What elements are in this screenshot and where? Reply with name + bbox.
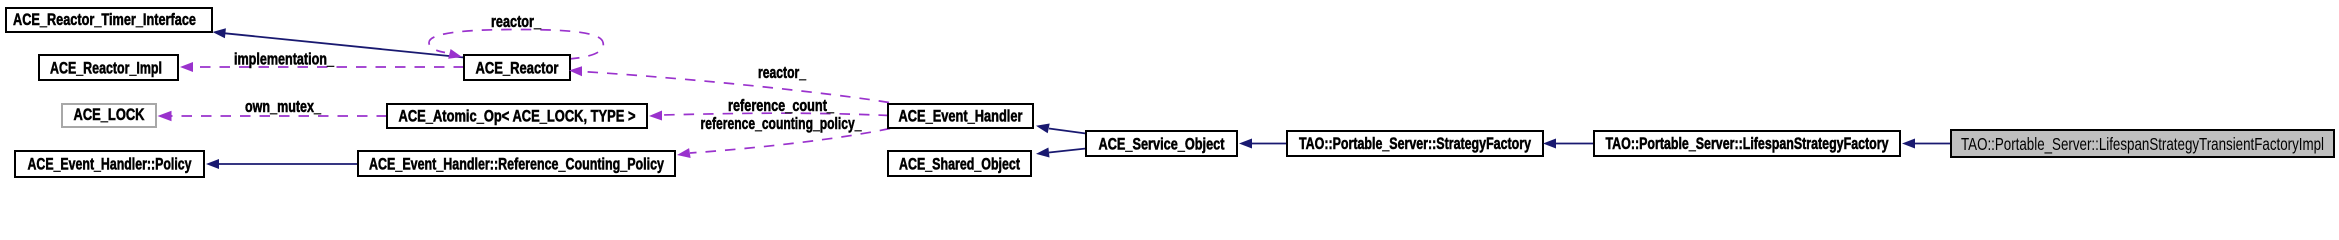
class box ACE_Reactor	[464, 55, 570, 80]
svg-text:ACE_Event_Handler: ACE_Event_Handler	[899, 108, 1023, 126]
focal class box TAO::Portable_Server::LifespanStrategyTransientFactoryImpl (gray fill)	[1951, 130, 2334, 157]
class box TAO::Portable_Server::LifespanStrategyFactory	[1594, 131, 1900, 156]
usage edge own_mutex_ from ACE_Atomic_Op to ACE_LOCK	[158, 98, 388, 121]
inheritance arrow ACE_Service_Object to ACE_Event_Handler	[1036, 124, 1086, 134]
svg-text:TAO::Portable_Server::Lifespan: TAO::Portable_Server::LifespanStrategyFa…	[1606, 135, 1890, 153]
class box TAO::Portable_Server::StrategyFactory	[1287, 131, 1543, 156]
class box ACE_Reactor_Impl	[39, 55, 178, 80]
svg-text:ACE_LOCK: ACE_LOCK	[74, 106, 145, 124]
class box ACE_Reactor_Timer_Interface	[6, 8, 212, 32]
svg-text:ACE_Reactor_Timer_Interface: ACE_Reactor_Timer_Interface	[13, 11, 196, 29]
svg-text:ACE_Atomic_Op< ACE_LOCK, TYPE: ACE_Atomic_Op< ACE_LOCK, TYPE >	[399, 108, 636, 126]
inheritance arrow ACE_Service_Object to ACE_Shared_Object	[1036, 148, 1086, 158]
svg-text:ACE_Shared_Object: ACE_Shared_Object	[899, 156, 1020, 174]
svg-text:reference_counting_policy_: reference_counting_policy_	[701, 115, 863, 133]
svg-text:ACE_Reactor_Impl: ACE_Reactor_Impl	[50, 60, 162, 78]
svg-text:TAO::Portable_Server::Strategy: TAO::Portable_Server::StrategyFactory	[1299, 135, 1532, 153]
inheritance arrow TAO::Portable_Server::LifespanStrategyFactory to TAO::Portable_Server::StrategyFactory	[1543, 139, 1594, 149]
template-parameter class box ACE_LOCK (gray border)	[62, 104, 156, 127]
svg-text:TAO::Portable_Server::Lifespan: TAO::Portable_Server::LifespanStrategyTr…	[1961, 134, 2324, 155]
svg-text:ACE_Event_Handler::Policy: ACE_Event_Handler::Policy	[28, 156, 193, 174]
inheritance arrow ACE_Reactor to ACE_Reactor_Timer_Interface	[213, 28, 465, 57]
usage edge reference_count_ from ACE_Event_Handler to ACE_Atomic_Op	[649, 97, 889, 121]
class box ACE_Shared_Object	[888, 151, 1031, 176]
class box ACE_Event_Handler::Policy	[15, 151, 204, 177]
svg-text:reference_count_: reference_count_	[728, 97, 835, 115]
usage edge reference_counting_policy_ from ACE_Event_Handler to ACE_Event_Handler::Reference_Counting_Policy	[677, 115, 890, 158]
class box ACE_Event_Handler::Reference_Counting_Policy	[358, 151, 675, 176]
inheritance arrow TAO::Portable_Server::StrategyFactory to ACE_Service_Object	[1239, 139, 1287, 149]
inheritance arrow ACE_Event_Handler::Reference_Counting_Policy to ACE_Event_Handler::Policy	[206, 159, 358, 169]
usage edge reactor_ from ACE_Event_Handler to ACE_Reactor	[569, 64, 889, 103]
svg-text:own_mutex_: own_mutex_	[245, 98, 322, 116]
class box ACE_Event_Handler	[888, 104, 1033, 128]
usage edge implementation_ from ACE_Reactor to ACE_Reactor_Impl	[180, 51, 464, 73]
svg-text:implementation_: implementation_	[234, 51, 335, 69]
self-loop usage edge reactor_ on ACE_Reactor	[429, 13, 603, 59]
svg-text:ACE_Reactor: ACE_Reactor	[476, 60, 559, 78]
svg-text:reactor_: reactor_	[758, 64, 807, 82]
svg-text:ACE_Service_Object: ACE_Service_Object	[1099, 136, 1225, 154]
svg-text:reactor_: reactor_	[491, 13, 542, 31]
svg-text:ACE_Event_Handler::Reference_C: ACE_Event_Handler::Reference_Counting_Po…	[369, 156, 665, 174]
class box ACE_Atomic_Op< ACE_LOCK, TYPE >	[387, 104, 647, 128]
class box ACE_Service_Object	[1086, 131, 1237, 156]
inheritance arrow TAO::Portable_Server::LifespanStrategyTransientFactoryImpl to TAO::Portable_Server::LifespanStrategyFactory	[1902, 139, 1951, 149]
